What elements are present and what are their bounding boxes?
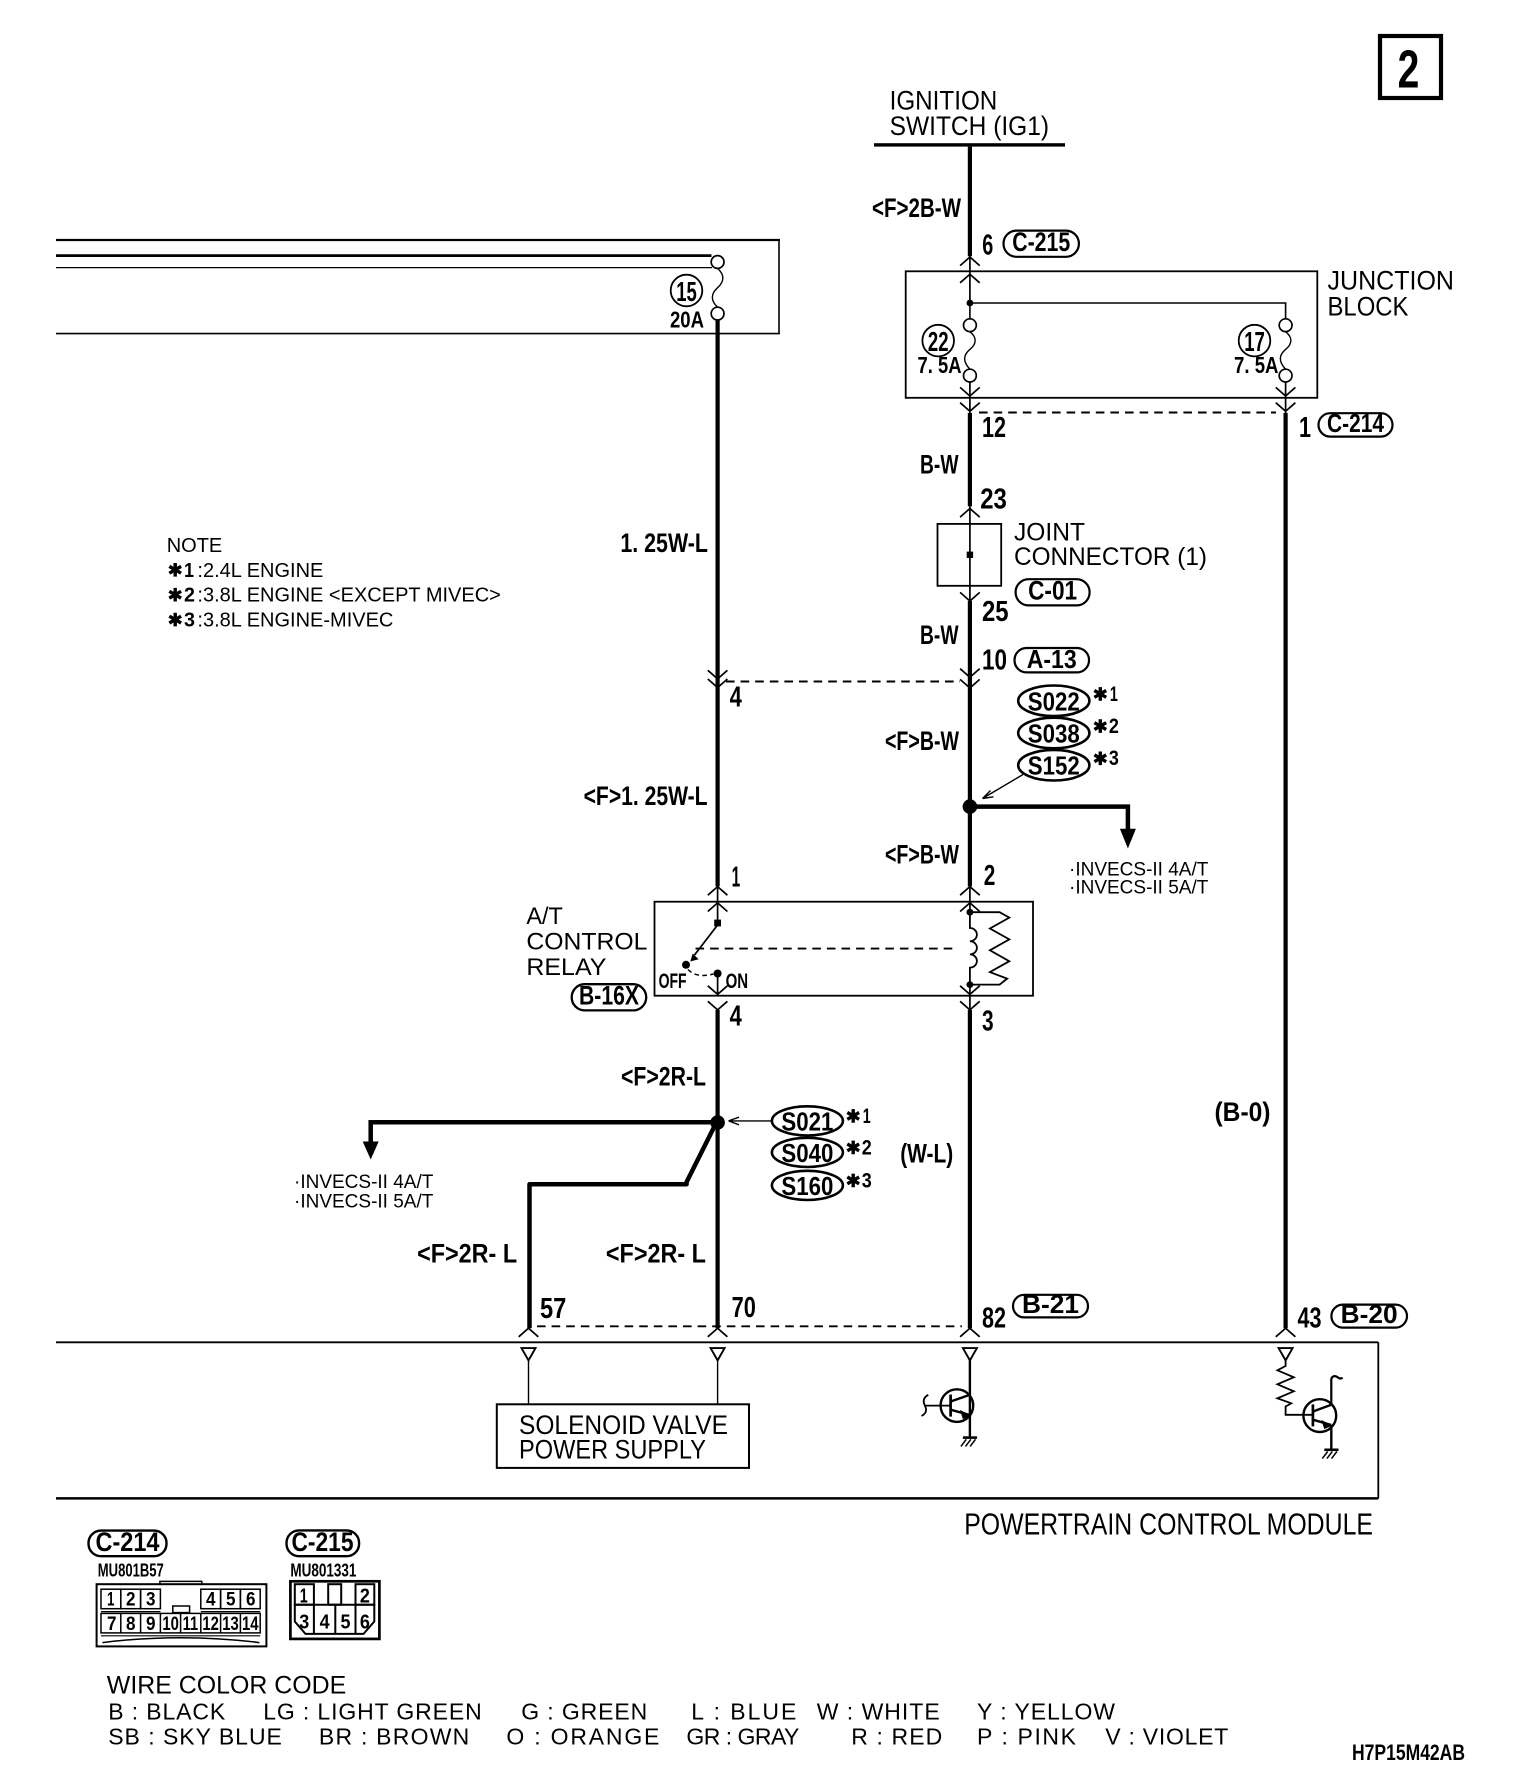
svg-text:POWERTRAIN CONTROL MODULE: POWERTRAIN CONTROL MODULE — [964, 1506, 1373, 1541]
ignition switch (IG1) — [874, 86, 1065, 147]
svg-text:2: 2 — [184, 585, 195, 607]
relay switch moving contact — [695, 926, 718, 956]
svg-text:<F>2R-L: <F>2R-L — [621, 1062, 706, 1092]
svg-text:SB : SKY BLUE: SB : SKY BLUE — [108, 1724, 282, 1750]
connector C-215 pinout drawing — [290, 1581, 379, 1639]
wire 2R-L: splice to PCM pin 70 — [715, 1123, 719, 1329]
svg-text:C-215: C-215 — [292, 1527, 354, 1557]
fuse 17 7.5A — [1234, 319, 1292, 382]
svg-text:10: 10 — [162, 1614, 179, 1635]
fuse 22 7.5A — [918, 319, 977, 382]
A-13 crossing chevrons — [960, 669, 980, 688]
svg-text:70: 70 — [732, 1292, 756, 1324]
thin wire ON contact to pin 4 — [717, 974, 719, 995]
wire 2R-L: relay pin 4 down — [715, 1010, 719, 1123]
bus wire (thick) in fuse block — [56, 254, 712, 257]
branch wire to INVECS-II — [968, 807, 1128, 830]
dashed connector line PCM row — [537, 1325, 962, 1327]
branch wire to INVECS-II (left) — [371, 1122, 720, 1143]
relay switch common post — [714, 920, 721, 927]
ground (Q1 emitter) — [961, 1438, 977, 1447]
thin wire pin 12 — [969, 382, 971, 413]
svg-text:S022: S022 — [1028, 686, 1080, 716]
arrowhead to INVECS-II — [1120, 829, 1136, 849]
svg-text:4: 4 — [730, 1001, 742, 1033]
splice S040 (*2) — [772, 1136, 872, 1168]
svg-text:43: 43 — [1298, 1302, 1322, 1334]
svg-text:2: 2 — [1398, 39, 1420, 99]
svg-text::3.8L ENGINE-MIVEC: :3.8L ENGINE-MIVEC — [197, 610, 393, 632]
svg-text:13: 13 — [222, 1614, 239, 1635]
svg-text:NOTE: NOTE — [167, 535, 223, 557]
svg-text:S021: S021 — [781, 1106, 833, 1136]
svg-text:·INVECS-II 5A/T: ·INVECS-II 5A/T — [294, 1192, 434, 1213]
INVECS-II note (left) — [294, 1172, 434, 1213]
svg-text:B-W: B-W — [920, 620, 959, 650]
svg-text:C-215: C-215 — [1012, 227, 1070, 257]
svg-text:SWITCH (IG1): SWITCH (IG1) — [890, 111, 1050, 141]
svg-text:CONNECTOR (1): CONNECTOR (1) — [1014, 543, 1207, 571]
relay pin 4 exit chevrons — [708, 986, 728, 1010]
splice S022 (*1) — [1018, 683, 1118, 717]
switch arrowhead — [690, 954, 698, 962]
wire B-W: junction block to joint connector — [968, 413, 972, 507]
thin wire into relay pin 1 — [717, 886, 719, 920]
svg-text:<F>2B-W: <F>2B-W — [872, 193, 961, 223]
svg-text:<F>2R- L: <F>2R- L — [417, 1238, 517, 1268]
splice S152 (*3) — [1018, 747, 1119, 781]
wire elbow: splice to PCM pin 57 — [530, 1120, 718, 1328]
internal wire to fuse 17 — [970, 303, 1286, 319]
svg-text:2: 2 — [1109, 715, 1119, 738]
relay actuation dashed line — [696, 948, 959, 950]
page number box 2 — [1380, 36, 1441, 99]
svg-text:6: 6 — [246, 1590, 256, 1611]
svg-text:15: 15 — [676, 276, 697, 307]
connector C-214 label — [1319, 408, 1393, 438]
svg-text:L : BLUE: L : BLUE — [691, 1698, 796, 1724]
relay coil — [970, 912, 977, 984]
svg-text:W : WHITE: W : WHITE — [817, 1698, 940, 1724]
svg-text:7: 7 — [107, 1614, 117, 1635]
node: B-W splice — [963, 799, 978, 814]
junction block exit chevrons (pin 12) — [960, 387, 980, 411]
svg-text:1: 1 — [184, 560, 194, 582]
svg-text:S040: S040 — [781, 1138, 833, 1168]
svg-text:C-214: C-214 — [96, 1527, 160, 1557]
svg-text:O : ORANGE: O : ORANGE — [506, 1724, 659, 1750]
svg-text:G : GREEN: G : GREEN — [521, 1698, 647, 1724]
svg-text:10: 10 — [982, 644, 1007, 676]
connector C-215 label — [1004, 227, 1079, 257]
svg-text:8: 8 — [126, 1614, 136, 1635]
connector C-215 callout label — [287, 1527, 360, 1557]
ON contact dot — [714, 970, 722, 978]
coil bottom node — [967, 981, 974, 988]
svg-text:·INVECS-II 5A/T: ·INVECS-II 5A/T — [1069, 877, 1209, 898]
svg-text:57: 57 — [540, 1293, 566, 1325]
wire B-W: joint connector to A-13 — [968, 601, 972, 807]
thin wire into junction block — [969, 255, 971, 303]
svg-text:4: 4 — [320, 1611, 331, 1633]
svg-text:S038: S038 — [1028, 719, 1080, 749]
NOTE text block — [167, 535, 501, 632]
lead pin 57 to solenoid supply — [528, 1360, 530, 1404]
joint connector entry chevron — [960, 509, 980, 518]
OFF contact dot — [682, 961, 690, 969]
svg-text:25: 25 — [982, 596, 1009, 628]
joint connector exit chevron — [960, 592, 980, 601]
wire color code line 2 — [108, 1724, 1228, 1750]
junction block box — [906, 271, 1318, 398]
thin wire into relay pin 2 — [969, 886, 971, 912]
dashed connector line C-214 row — [979, 412, 1276, 414]
svg-text:<F>B-W: <F>B-W — [885, 840, 959, 870]
transistor Q1 — [922, 1389, 974, 1422]
INVECS-II note (right) — [1069, 859, 1209, 898]
svg-text:3: 3 — [982, 1006, 994, 1038]
PCM pin 82 entry chevron — [960, 1328, 980, 1337]
ground (Q2 emitter) — [1322, 1450, 1338, 1459]
node: junction block internal bus — [967, 300, 974, 307]
transistor Q2 — [1303, 1376, 1342, 1449]
svg-text:(B-0): (B-0) — [1215, 1097, 1271, 1127]
wire: splice to relay pin 2 — [968, 807, 972, 887]
powertrain control module box — [56, 1342, 1378, 1498]
svg-text:11: 11 — [183, 1614, 199, 1635]
svg-text:MU801B57: MU801B57 — [98, 1561, 164, 1581]
svg-text:WIRE COLOR CODE: WIRE COLOR CODE — [107, 1672, 346, 1700]
resistor at PCM pin 43 — [1277, 1360, 1313, 1414]
svg-text:A-13: A-13 — [1027, 644, 1077, 674]
svg-text:B-W: B-W — [920, 449, 959, 479]
connector C-214 pinout drawing — [97, 1581, 267, 1646]
svg-text:20A: 20A — [670, 307, 704, 333]
connector A-13 label — [1015, 644, 1090, 674]
svg-text:3: 3 — [146, 1590, 156, 1611]
svg-text::2.4L ENGINE: :2.4L ENGINE — [197, 560, 323, 582]
PCM pin 57 entry chevron — [519, 1328, 539, 1337]
svg-text:B-21: B-21 — [1022, 1289, 1079, 1319]
lead pin 70 to solenoid supply — [717, 1360, 719, 1404]
svg-text:2: 2 — [862, 1136, 872, 1159]
A/T control relay box — [655, 902, 1034, 996]
pointer arrow from S021 to splice node — [729, 1117, 772, 1125]
connector crossing chevrons on left wire (pin 4) — [708, 670, 728, 687]
svg-text:12: 12 — [982, 412, 1006, 444]
svg-text:S152: S152 — [1028, 751, 1080, 781]
svg-text:12: 12 — [202, 1614, 219, 1635]
svg-text:BLOCK: BLOCK — [1328, 291, 1409, 321]
svg-text:<F>B-W: <F>B-W — [885, 726, 959, 756]
svg-text:Y : YELLOW: Y : YELLOW — [977, 1698, 1115, 1724]
svg-text:<F>1. 25W-L: <F>1. 25W-L — [584, 781, 708, 811]
internal wire to fuse 22 — [969, 303, 971, 319]
connector B-21 label — [1013, 1289, 1088, 1319]
svg-text:2: 2 — [126, 1590, 136, 1611]
svg-text:·INVECS-II 4A/T: ·INVECS-II 4A/T — [294, 1172, 434, 1193]
wire B-0: junction block to PCM pin 43 — [1283, 413, 1287, 1328]
svg-text:2: 2 — [984, 860, 996, 892]
svg-text:6: 6 — [982, 229, 993, 261]
node: 2R-L splice — [710, 1115, 725, 1130]
junction block label — [1328, 266, 1455, 322]
svg-text:7. 5A: 7. 5A — [1234, 352, 1279, 378]
svg-text:9: 9 — [146, 1614, 156, 1635]
splice S160 (*3) — [772, 1169, 872, 1201]
dashed throw arc OFF to ON — [688, 970, 714, 976]
PCM pin 82 terminal triangle — [963, 1348, 977, 1360]
svg-text:82: 82 — [982, 1302, 1006, 1334]
dashed connector line between pin 4 and A-13 — [726, 681, 960, 683]
svg-text::3.8L ENGINE <EXCEPT MIVEC>: :3.8L ENGINE <EXCEPT MIVEC> — [197, 585, 500, 607]
splice S021 (*1) — [772, 1105, 871, 1137]
svg-text:1. 25W-L: 1. 25W-L — [620, 528, 708, 558]
relay pin 2 entry chevrons — [960, 887, 980, 912]
svg-text:14: 14 — [242, 1614, 259, 1635]
svg-text:1: 1 — [107, 1590, 115, 1611]
relay pin 1 entry chevrons — [708, 887, 728, 912]
connector B-20 label — [1331, 1299, 1407, 1329]
PCM pin 57 terminal triangle — [522, 1348, 536, 1360]
transistor Q1 collector lead — [969, 1360, 971, 1436]
connector C-214 callout label — [89, 1527, 167, 1557]
PCM pin 70 entry chevron — [708, 1328, 728, 1337]
svg-text:5: 5 — [226, 1590, 236, 1611]
svg-text:3: 3 — [862, 1169, 872, 1192]
arrowhead to INVECS-II (left) — [363, 1142, 379, 1160]
splice S038 (*2) — [1018, 715, 1119, 749]
pointer arrow from S152 to splice node — [983, 775, 1024, 799]
svg-text:1: 1 — [1299, 412, 1311, 444]
svg-text:OFF: OFF — [659, 970, 687, 993]
solenoid valve power supply box — [497, 1404, 749, 1468]
thin wire relay pin 3 — [969, 985, 971, 1010]
fuse block (continued, top-left) — [56, 240, 780, 334]
PCM pin 43 terminal triangle — [1279, 1348, 1293, 1360]
svg-text:ON: ON — [726, 970, 749, 993]
svg-text:B : BLACK: B : BLACK — [108, 1698, 226, 1724]
svg-text:C-214: C-214 — [1327, 408, 1384, 438]
svg-text:1: 1 — [300, 1585, 308, 1607]
svg-text:B-20: B-20 — [1341, 1299, 1398, 1329]
svg-text:RELAY: RELAY — [526, 954, 606, 981]
svg-text:H7P15M42AB: H7P15M42AB — [1352, 1740, 1465, 1765]
junction block exit chevrons (pin 1 / C-214) — [1276, 387, 1296, 411]
svg-text:3: 3 — [299, 1611, 309, 1633]
svg-text:1: 1 — [863, 1105, 871, 1128]
thin wire pin 1 — [1285, 382, 1287, 413]
fuse 15 20A — [670, 256, 724, 333]
svg-text:3: 3 — [1109, 747, 1119, 770]
svg-text:R : RED: R : RED — [851, 1724, 942, 1750]
svg-text:P : PINK: P : PINK — [977, 1724, 1077, 1750]
relay pin 3 exit chevrons — [960, 986, 980, 1010]
svg-text:(W-L): (W-L) — [900, 1139, 953, 1169]
thin wire through joint connector — [969, 506, 971, 601]
svg-text:7. 5A: 7. 5A — [918, 352, 962, 378]
C-215 crossing chevrons — [960, 257, 980, 283]
bus wire (thin) in fuse block — [56, 267, 712, 269]
svg-text:1: 1 — [732, 862, 741, 894]
PCM pin 43 entry chevron — [1276, 1328, 1296, 1337]
wire color code line 1 — [108, 1698, 1115, 1724]
svg-text:BR : BROWN: BR : BROWN — [319, 1724, 469, 1750]
svg-text:GR : GRAY: GR : GRAY — [686, 1724, 799, 1750]
svg-text:2: 2 — [360, 1585, 370, 1607]
coil top node — [967, 909, 974, 916]
A/T control relay label — [526, 903, 647, 981]
wire 1.25W-L: fuse 15 to A/T control relay pin 1 — [715, 320, 719, 886]
svg-text:6: 6 — [360, 1611, 370, 1633]
svg-text:POWER SUPPLY: POWER SUPPLY — [519, 1434, 706, 1464]
svg-text:CONTROL: CONTROL — [526, 929, 647, 956]
svg-text:C-01: C-01 — [1028, 576, 1077, 606]
connector B-16X label — [572, 981, 647, 1011]
svg-text:4: 4 — [206, 1590, 216, 1611]
svg-text:V : VIOLET: V : VIOLET — [1105, 1724, 1228, 1750]
joint connector label — [1014, 519, 1207, 572]
joint connector (1) box C-01 — [938, 524, 1002, 586]
relay resistor (parallel with coil) — [970, 912, 1009, 984]
svg-text:23: 23 — [980, 484, 1007, 516]
svg-text:MU801331: MU801331 — [290, 1561, 356, 1581]
svg-text:3: 3 — [184, 610, 195, 632]
svg-text:5: 5 — [341, 1611, 351, 1633]
svg-text:B-16X: B-16X — [579, 981, 639, 1011]
svg-text:A/T: A/T — [526, 903, 563, 930]
connector C-01 label — [1016, 576, 1090, 606]
svg-text:LG : LIGHT GREEN: LG : LIGHT GREEN — [263, 1698, 482, 1724]
svg-text:4: 4 — [730, 681, 742, 713]
wire W-L: relay pin 3 to PCM pin 82 — [968, 1010, 972, 1328]
PCM pin 70 terminal triangle — [711, 1348, 725, 1360]
wire 2B-W: ignition switch to connector C-215 — [968, 147, 972, 257]
svg-text:<F>2R- L: <F>2R- L — [606, 1238, 706, 1268]
svg-text:1: 1 — [1110, 683, 1118, 706]
svg-text:S160: S160 — [781, 1171, 833, 1201]
